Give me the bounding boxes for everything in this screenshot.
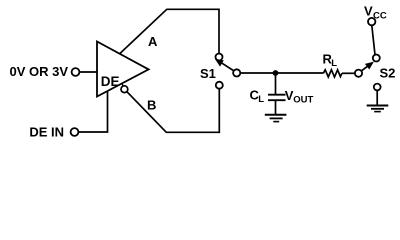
wire DE IN to driver — [78, 91, 107, 132]
resistor RL zigzag — [323, 70, 342, 77]
switch S2 arm with arrow — [361, 66, 368, 71]
ground below capacitor — [265, 115, 287, 122]
svg-text:B: B — [147, 98, 156, 113]
inversion bubble on B output — [121, 86, 128, 93]
switch S1 bottom contact — [216, 82, 223, 89]
wire resistor to S2 pole — [342, 72, 355, 74]
switch S2 pole contact — [355, 70, 362, 77]
switch S2 bottom contact — [374, 84, 381, 91]
ground below S2 — [367, 106, 389, 112]
svg-text:V: V — [364, 3, 373, 18]
switch S1 pole contact — [233, 69, 240, 76]
wire S2 bottom contact to ground — [376, 90, 378, 105]
switch S2 top contact — [373, 55, 380, 62]
svg-text:OUT: OUT — [293, 95, 313, 106]
svg-text:L: L — [258, 94, 264, 105]
svg-text:S1: S1 — [200, 66, 216, 81]
svg-text:A: A — [148, 34, 158, 49]
wire capacitor to ground — [275, 101, 277, 114]
wire S2 top contact to VCC — [372, 25, 375, 55]
svg-text:0V OR 3V: 0V OR 3V — [9, 64, 68, 79]
svg-text:DE IN: DE IN — [29, 125, 64, 140]
svg-text:CC: CC — [373, 11, 387, 22]
svg-text:S2: S2 — [380, 65, 396, 80]
input terminal circle — [72, 68, 80, 76]
switch S1 arm with arrow — [222, 63, 234, 71]
op-amp driver U1 triangle — [97, 42, 149, 97]
switch S1 top contact — [216, 54, 223, 61]
junction node dot — [273, 70, 279, 76]
wire input to driver — [79, 71, 97, 73]
capacitor CL bottom plate — [268, 99, 286, 101]
wire A path — [120, 9, 220, 54]
wire S1 pole to resistor — [240, 72, 323, 74]
VCC terminal circle — [368, 18, 375, 25]
wire junction to capacitor — [275, 73, 277, 94]
wire stub edge to bubble — [122, 84, 123, 87]
capacitor CL top plate — [268, 94, 286, 96]
wire B path — [127, 89, 220, 133]
DE IN terminal circle — [71, 128, 79, 136]
svg-text:L: L — [331, 58, 337, 69]
svg-text:DE: DE — [101, 74, 120, 89]
